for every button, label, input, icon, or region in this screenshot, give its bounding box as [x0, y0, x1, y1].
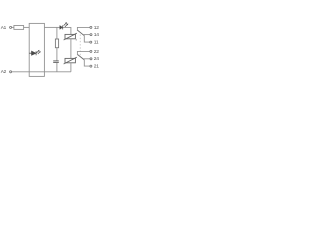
wire K2 to rail — [70, 63, 72, 72]
relay coil K2 — [64, 57, 77, 64]
contact 2 NO line to 24 — [83, 58, 90, 60]
relay coil K1 — [64, 33, 77, 40]
svg-text:14: 14 — [94, 32, 100, 38]
wire capacitor to rail — [56, 63, 58, 72]
wire diode to corner down to coil K1 — [63, 27, 71, 34]
mechanical link dashed — [79, 35, 81, 57]
svg-text:A1: A1 — [1, 25, 7, 30]
terminal 12 — [90, 26, 92, 28]
wire R1 to module box — [24, 26, 30, 28]
svg-text:A2: A2 — [1, 69, 7, 74]
contact 1 arm — [78, 30, 85, 35]
coil K1 actuator stub — [75, 39, 77, 41]
terminal A1 — [10, 26, 12, 28]
resistor R1 (input series resistor) — [14, 26, 24, 30]
svg-text:11: 11 — [94, 40, 99, 46]
terminal 14 — [90, 34, 92, 36]
capacitor C1 — [53, 60, 59, 62]
terminal 22 — [90, 50, 92, 52]
svg-text:22: 22 — [94, 49, 100, 55]
LED D1 inside box — [29, 51, 36, 55]
contact 1 NO line to 14 — [83, 34, 90, 36]
terminal A2 — [10, 71, 12, 73]
LED D2 on line1 — [60, 25, 63, 29]
svg-text:12: 12 — [94, 25, 100, 31]
wire R2 to capacitor — [56, 48, 58, 61]
LED D1 arrows — [37, 50, 41, 54]
resistor R2 — [55, 39, 58, 48]
contact 2 common to 21 — [84, 60, 89, 67]
svg-text:24: 24 — [94, 56, 100, 62]
wire A2 bottom rail — [12, 71, 71, 73]
contact 2 arm — [78, 55, 85, 60]
wire line1 from box to diode — [44, 26, 59, 28]
terminal 21 — [90, 65, 92, 67]
wire branch down to R2 — [56, 27, 58, 39]
wire A1 to R1 — [12, 26, 14, 28]
contact 1 common to 11 — [84, 35, 89, 42]
terminal 24 — [90, 58, 92, 60]
contact 2 NC line to 22 — [77, 51, 89, 55]
contact 1 NC line to 12 — [77, 27, 89, 31]
module box U1 — [29, 23, 44, 76]
terminal 11 — [90, 41, 92, 43]
LED D2 arrows — [64, 22, 69, 27]
wire K1 to K2 — [70, 39, 72, 59]
svg-text:21: 21 — [94, 64, 100, 70]
